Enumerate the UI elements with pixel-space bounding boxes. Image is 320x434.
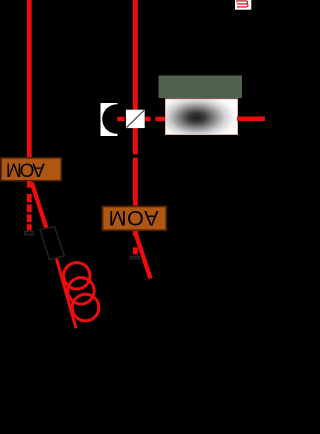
svg-text:AOM: AOM xyxy=(7,159,45,180)
svg-text:AOM: AOM xyxy=(108,206,158,230)
